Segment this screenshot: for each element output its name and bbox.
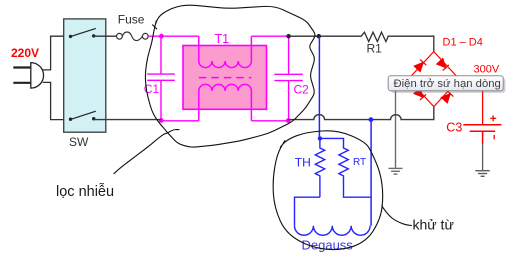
svg-text:Điện trở sứ hạn dòng: Điện trở sứ hạn dòng: [394, 78, 501, 90]
R1 label: [367, 42, 383, 56]
wire switch to fuse: [94, 35, 117, 37]
diode D3: [414, 88, 426, 100]
khu tu label: [413, 217, 454, 233]
wire bottom main (C2 to bridge bottom, hops over two verticals): [288, 107, 434, 120]
diode D1: [414, 60, 426, 72]
capacitor C1: [147, 36, 175, 121]
svg-text:220V: 220V: [11, 46, 39, 60]
svg-text:Fuse: Fuse: [118, 13, 145, 27]
annotation blob khu tu: [273, 131, 383, 250]
capacitor C3: [463, 125, 501, 145]
C3 plus mark: [490, 115, 496, 121]
svg-text:khử từ: khử từ: [413, 217, 454, 233]
wire bottom main (switch to C1 bottom): [94, 119, 162, 121]
C3 minus mark: [493, 135, 495, 139]
wire bridge left vertex to ground: [396, 79, 409, 168]
node degauss tap: [317, 34, 321, 38]
RT label: [353, 157, 366, 168]
svg-text:R1: R1: [367, 42, 383, 56]
wire T1 bottom-right to C2 (magenta): [251, 120, 288, 122]
C3 label: [446, 120, 462, 134]
plug P1: [13, 63, 43, 89]
T1 label: [215, 32, 230, 46]
wire neutral drop (blue): [370, 120, 372, 226]
svg-text:300V: 300V: [474, 64, 500, 76]
thermistor TH: [315, 138, 324, 197]
wire top main (C2 to R1): [289, 35, 361, 37]
tooltip Dien tro su han dong: [388, 76, 503, 91]
Fuse label: [118, 13, 145, 27]
wire C3 to ground: [482, 144, 484, 170]
SW label: [69, 135, 89, 149]
annotation blob loc nhieu: [145, 5, 315, 147]
C1 label: [144, 82, 160, 96]
diode D2: [437, 59, 449, 71]
D1-D4 label: [443, 37, 483, 49]
diode bridge edges: [408, 52, 459, 107]
svg-text:RT: RT: [353, 157, 366, 168]
node neutral tap: [369, 117, 374, 122]
svg-text:C2: C2: [294, 83, 310, 97]
Degauss label: [302, 238, 354, 253]
wire bridge right vertex to C3 (red): [459, 79, 482, 125]
svg-text:C3: C3: [446, 120, 462, 134]
node C2 top: [286, 34, 290, 38]
wire TH to degauss coil: [295, 197, 320, 226]
ground (bridge minus): [389, 168, 403, 174]
diode D4: [441, 91, 453, 103]
svg-text:D1 – D4: D1 – D4: [443, 37, 483, 49]
220V label: [11, 46, 39, 60]
svg-text:TH: TH: [295, 156, 311, 170]
resistor R1: [361, 32, 388, 41]
svg-text:T1: T1: [215, 32, 230, 46]
switch SW: [64, 19, 106, 132]
capacitor C2: [274, 36, 302, 121]
wire T1 top-right to C2 top (magenta): [251, 35, 288, 37]
annotation pointer loc nhieu: [114, 130, 180, 175]
wire plug to switch (bottom): [43, 82, 71, 119]
resistor RT: [320, 138, 371, 197]
loc nhieu label: [56, 183, 114, 200]
wire R1 to bridge top: [388, 36, 434, 51]
tooltip shadow: [390, 78, 505, 93]
fuse F1: [117, 32, 149, 41]
svg-text:lọc nhiễu: lọc nhiễu: [56, 183, 114, 200]
annotation pointer khu tu: [382, 206, 412, 226]
wire plug to switch (top): [42, 36, 70, 70]
300V label: [474, 64, 500, 76]
node C2 bottom: [286, 118, 291, 123]
node degauss junction: [318, 136, 322, 140]
wire fuse to node (magenta): [148, 35, 199, 37]
wire degauss hot drop (blue): [318, 36, 320, 138]
ground (C3): [475, 171, 489, 177]
C2 label: [294, 83, 310, 97]
TH label: [295, 156, 311, 170]
degauss coil: [295, 226, 371, 235]
svg-text:SW: SW: [69, 135, 89, 149]
wire T1 bottom-left to C1 (magenta): [161, 120, 199, 122]
node C1 top: [159, 34, 164, 39]
node C1 bottom: [159, 118, 164, 123]
transformer T1: [183, 36, 267, 121]
